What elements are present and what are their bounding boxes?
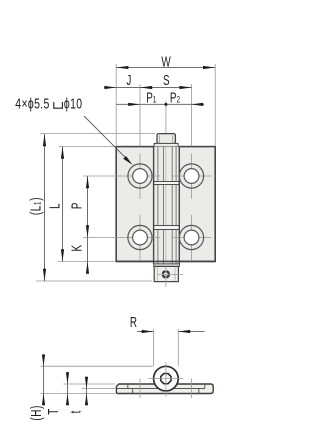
barrel centerline [165, 147, 167, 261]
hole bottom-right crosshair [172, 237, 212, 239]
svg-text:T: T [45, 408, 61, 414]
screw centerlines [157, 274, 183, 276]
svg-text:S: S [163, 72, 170, 88]
ext line left hole col [139, 84, 141, 146]
dim P [69, 176, 89, 238]
dim t [68, 377, 88, 414]
cap inner shading lines [159, 135, 161, 143]
svg-text:J: J [126, 72, 131, 88]
knuckle joint band 2 [154, 225, 180, 229]
leaf bar [116, 384, 213, 394]
ext line pin bottom [36, 280, 152, 282]
cap flange [154, 143, 178, 146]
R ext lines [153, 329, 155, 366]
hole bottom-right [179, 225, 203, 249]
svg-text:ϕ10: ϕ10 [64, 96, 83, 112]
counterbore note [15, 96, 132, 165]
ext line plate top [59, 146, 115, 148]
svg-text:(H): (H) [28, 405, 44, 421]
barrel outer edges [153, 147, 155, 264]
dim S [140, 72, 192, 89]
barrel body [154, 147, 180, 264]
plate bottom edge over barrel [116, 260, 215, 262]
hole top-left crosshair [120, 175, 160, 177]
through hole edge left (bottom half) [132, 389, 134, 394]
dim K [69, 238, 90, 274]
dim T [45, 372, 69, 415]
svg-text:t: t [68, 410, 84, 413]
knuckle joint band 1 [154, 181, 180, 185]
hole top-right [179, 164, 203, 188]
svg-text:P: P [69, 203, 85, 210]
dim (L1) [28, 134, 46, 281]
hole bottom-left crosshair [120, 237, 160, 239]
ext line bottom hole row [83, 237, 121, 239]
ext line right hole col [191, 84, 193, 146]
hole top-right crosshair [172, 175, 212, 177]
main vertical centerline above/below [165, 101, 167, 134]
dim (H) [28, 354, 45, 420]
counterbore edge right (top half) [204, 384, 206, 389]
ext line cap top [40, 133, 155, 135]
knuckle crosshair [149, 378, 184, 380]
svg-text:R: R [130, 314, 137, 330]
hole centerlines through bar [139, 379, 141, 399]
ext line plate bottom [58, 261, 115, 263]
dim W [116, 53, 215, 69]
leaf seam line [116, 388, 204, 390]
plate body [116, 147, 215, 262]
ext line plate left [115, 64, 117, 146]
dim P1 P2 [116, 90, 204, 106]
ext lines bottom view [41, 365, 153, 367]
set screw head [161, 269, 172, 279]
svg-text:(L1): (L1) [28, 197, 44, 215]
counterbore edge left (top half) [127, 384, 129, 389]
svg-text:K: K [69, 244, 85, 251]
through hole edge right (bottom half) [198, 389, 200, 394]
barrel inner lines [157, 147, 159, 264]
hinge pin cap (top) [157, 134, 175, 144]
hole bottom-left [128, 225, 152, 249]
dim J [104, 72, 140, 89]
pin bottom block [154, 266, 178, 281]
svg-text:W: W [161, 53, 171, 69]
hole top-left (counterbore) [128, 164, 152, 188]
dim R [130, 314, 205, 333]
ext line plate right [214, 64, 216, 146]
knuckle circle [154, 366, 179, 391]
pin bottom flange [154, 264, 180, 267]
ext line top hole row [83, 175, 121, 177]
svg-text:4×ϕ5.5: 4×ϕ5.5 [15, 96, 49, 112]
dim L [47, 147, 65, 262]
svg-text:L: L [47, 203, 63, 209]
pin cross-section [161, 374, 171, 384]
